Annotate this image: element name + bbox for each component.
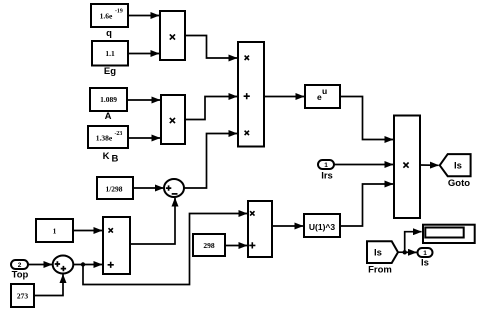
svg-text:B: B bbox=[112, 154, 119, 165]
svg-text:Is: Is bbox=[374, 248, 382, 259]
svg-text:1.38e: 1.38e bbox=[96, 134, 113, 143]
svg-text:1: 1 bbox=[324, 162, 328, 169]
svg-text:Irs: Irs bbox=[321, 171, 333, 182]
svg-text:-19: -19 bbox=[115, 9, 123, 15]
svg-text:u: u bbox=[322, 86, 327, 96]
svg-text:Top: Top bbox=[12, 270, 29, 281]
svg-text:2: 2 bbox=[18, 262, 22, 269]
svg-text:1: 1 bbox=[53, 227, 57, 236]
svg-text:1.6e: 1.6e bbox=[100, 12, 113, 21]
svg-text:1.089: 1.089 bbox=[100, 95, 117, 104]
svg-text:From: From bbox=[368, 265, 392, 276]
svg-text:1/298: 1/298 bbox=[105, 185, 122, 194]
svg-text:273: 273 bbox=[17, 292, 29, 301]
svg-text:U(1)^3: U(1)^3 bbox=[309, 222, 335, 232]
svg-text:1.1: 1.1 bbox=[105, 49, 115, 58]
svg-text:K: K bbox=[103, 151, 110, 162]
svg-text:Is: Is bbox=[421, 258, 429, 269]
svg-text:Goto: Goto bbox=[448, 178, 470, 189]
svg-text:1: 1 bbox=[423, 250, 427, 257]
svg-text:Eg: Eg bbox=[104, 66, 116, 77]
svg-text:-23: -23 bbox=[115, 131, 123, 137]
svg-text:A: A bbox=[105, 111, 112, 122]
svg-text:q: q bbox=[106, 28, 112, 39]
svg-text:Is: Is bbox=[454, 161, 462, 172]
svg-text:298: 298 bbox=[203, 241, 215, 250]
